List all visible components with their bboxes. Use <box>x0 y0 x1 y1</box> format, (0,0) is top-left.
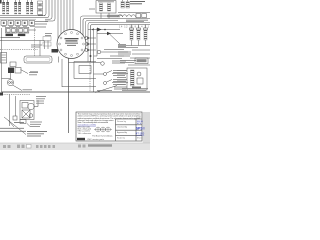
svg-text:The Boat Owners Assoc.: The Boat Owners Assoc. <box>92 135 113 138</box>
svg-text:4T-1E0: 4T-1E0 <box>136 131 145 135</box>
svg-text:SPS l: SPS l <box>137 123 143 125</box>
svg-text:Scale n/a: Scale n/a <box>117 138 126 140</box>
svg-text:YEL = alternator: YEL = alternator <box>78 132 92 135</box>
svg-text:Approved by: Approved by <box>117 131 127 134</box>
svg-text:CMC marine parts: CMC marine parts <box>87 138 104 141</box>
svg-text:Sheet: Sheet <box>137 137 143 140</box>
svg-text:Drawn by: Drawn by <box>117 121 126 123</box>
svg-text:SPS I: SPS I <box>136 126 145 130</box>
svg-text:Checked by: Checked by <box>117 127 127 129</box>
